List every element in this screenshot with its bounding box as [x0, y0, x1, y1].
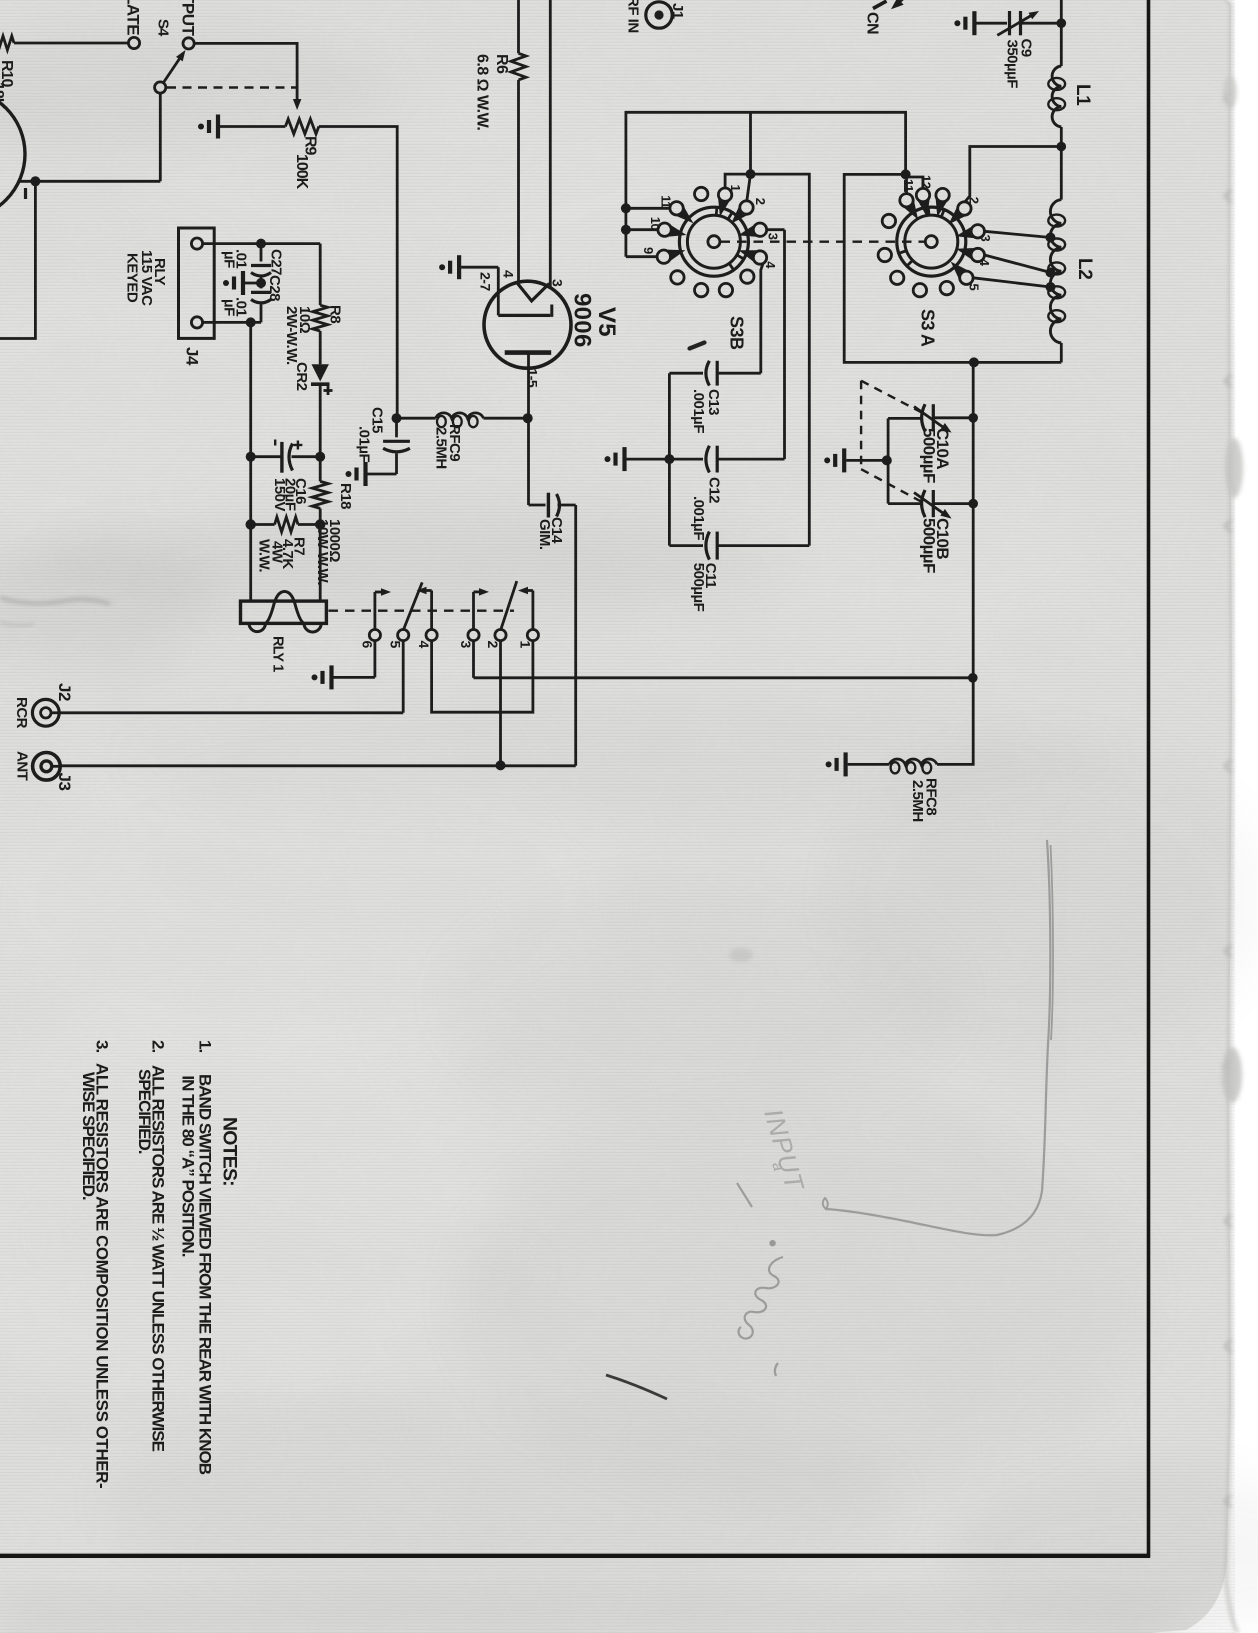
junction dot	[969, 357, 979, 367]
label S3A pin 2	[967, 197, 982, 204]
junction dot	[664, 454, 674, 464]
label contact 2	[485, 641, 501, 649]
wire C10 right bus	[972, 362, 975, 677]
wire C10 box	[887, 418, 890, 503]
label S3B pin 11	[658, 195, 673, 208]
wire bus to RFC8	[937, 678, 973, 765]
junction dot (ground stem)	[882, 455, 892, 465]
svg-text:500µµF: 500µµF	[690, 563, 707, 612]
resistor R9 (pot)	[285, 119, 318, 134]
label pin 4	[501, 270, 517, 278]
svg-text:KEYED: KEYED	[124, 253, 141, 303]
label S3A pin 11	[901, 179, 916, 192]
capacitor C28	[251, 283, 271, 322]
relay contact arm 3	[474, 588, 490, 629]
junction dot	[246, 317, 256, 327]
terminal J4 lower	[191, 317, 202, 328]
switch S4 moving contact	[155, 82, 166, 93]
plus sign C16	[293, 441, 302, 450]
label R8	[327, 305, 344, 323]
label S3A pin 3	[978, 235, 993, 242]
pencil dot	[769, 1240, 775, 1246]
label contact 5	[388, 641, 404, 649]
svg-text:11: 11	[658, 195, 673, 208]
resistor R10 (cut at edge)	[0, 36, 129, 50]
wire S3A pin 4 to L2 tap	[985, 255, 1051, 273]
label L2	[1074, 258, 1095, 280]
svg-text:150V: 150V	[271, 478, 288, 512]
label R6	[493, 54, 510, 74]
pencil word INPUT	[737, 1105, 810, 1207]
wire S3B pin 1	[725, 174, 750, 188]
label 150V	[271, 478, 288, 512]
svg-text:1-5: 1-5	[525, 369, 541, 388]
label 4W	[268, 541, 285, 564]
jack J2	[32, 699, 59, 726]
svg-text:WISE SPECIFIED.: WISE SPECIFIED.	[79, 1072, 98, 1200]
wire S3B pin 10	[626, 228, 658, 231]
switch S4 arm	[164, 50, 186, 83]
wire S3A pin 11	[905, 174, 908, 193]
svg-text:100K: 100K	[293, 154, 310, 190]
label 350uuF	[1004, 40, 1021, 89]
ground (pins 2-7)	[439, 255, 498, 315]
label C12	[705, 477, 722, 503]
junction dot	[968, 673, 978, 683]
svg-text:2: 2	[485, 641, 501, 649]
label J1	[669, 3, 686, 19]
wire RFC9 to cathode	[483, 417, 527, 420]
wire S3A pin 5 to L2 tap	[973, 278, 1051, 287]
svg-text:J3: J3	[55, 773, 74, 791]
label C14	[548, 517, 565, 544]
label KEYED	[124, 253, 141, 303]
wire contacts 4-1	[432, 641, 533, 713]
capacitor C13	[669, 361, 760, 386]
svg-text:3: 3	[766, 233, 781, 240]
note 2 marker	[148, 1040, 167, 1052]
svg-text:3: 3	[458, 641, 474, 649]
label pin 3	[550, 279, 566, 287]
resistor R7	[251, 517, 321, 532]
wire S3B pin 2	[747, 176, 750, 201]
rotor notch S3A	[898, 206, 945, 267]
label J2	[55, 683, 74, 701]
svg-text:V5: V5	[593, 307, 620, 337]
label S3B pin 9	[641, 247, 656, 254]
svg-text:J4: J4	[182, 347, 201, 366]
svg-text:3: 3	[978, 235, 993, 242]
label TPUT (OUTPUT cut)	[179, 0, 198, 37]
svg-text:C28: C28	[266, 275, 283, 301]
label 4.7K	[279, 539, 296, 569]
label R7	[290, 537, 307, 555]
dashed gang C10	[861, 381, 927, 505]
label R10	[0, 60, 15, 87]
svg-text:9006: 9006	[569, 293, 596, 348]
svg-text:CR2: CR2	[293, 362, 310, 391]
schematic border frame (right line)	[1147, 0, 1151, 1558]
label contact 6	[359, 641, 375, 649]
inductor L1	[1048, 66, 1065, 127]
notes title	[219, 1117, 241, 1186]
dashed link S4	[167, 86, 297, 88]
label V5	[593, 307, 620, 337]
capacitor C12	[669, 446, 784, 473]
svg-text:S3 A: S3 A	[918, 309, 938, 347]
wire pin1 node to C11 drop	[751, 174, 810, 545]
wire cathode	[529, 418, 546, 505]
note 3 line 2	[79, 1072, 98, 1200]
svg-text:IN THE 80 “A” POSITION.: IN THE 80 “A” POSITION.	[179, 1075, 198, 1256]
svg-text:RLY 1: RLY 1	[270, 636, 286, 672]
svg-text:R8: R8	[327, 305, 344, 323]
label uF C27	[221, 251, 238, 268]
svg-text:2-7: 2-7	[477, 272, 493, 291]
label 100K	[293, 154, 310, 190]
capacitor C14	[548, 493, 575, 518]
svg-text:9: 9	[641, 247, 656, 254]
label C13	[705, 389, 722, 415]
label C28	[266, 275, 283, 301]
label .01 C27	[233, 249, 250, 269]
relay moving arm 2	[501, 581, 517, 630]
label RLY1	[270, 636, 286, 672]
wire contact 2 down	[499, 641, 502, 766]
label C9	[1018, 39, 1035, 57]
label CN	[864, 12, 881, 34]
wire R8 to CR2	[319, 331, 322, 364]
minus sign C16	[274, 440, 276, 446]
junction dot	[256, 278, 266, 288]
junction dot (L2 tap 5)	[1046, 282, 1056, 292]
label J4	[182, 347, 201, 366]
label S3B pin 2	[753, 198, 768, 205]
svg-text:J1: J1	[669, 3, 686, 19]
label 1-5	[525, 369, 541, 388]
svg-text:3: 3	[550, 279, 566, 287]
label .001uF C13	[690, 389, 707, 433]
wire S3A pin 3 to L2 tap	[985, 231, 1051, 237]
relay contact terminals	[369, 630, 538, 641]
wire tank top	[1060, 0, 1063, 66]
label RF IN	[625, 0, 642, 33]
label C10B	[933, 518, 952, 559]
label 10ohm	[296, 306, 313, 334]
ground (C15)	[346, 462, 397, 486]
label RFC9	[446, 424, 463, 461]
svg-text:2W-W.W.: 2W-W.W.	[283, 306, 300, 365]
relay contact arm 1	[518, 587, 533, 630]
label RFC8	[923, 778, 940, 815]
wire L2 bottom	[1060, 343, 1063, 362]
wire C13-C11 left leg	[668, 373, 671, 545]
note 1 line 2	[179, 1075, 198, 1256]
svg-text:10: 10	[648, 217, 663, 231]
note 2 line 1	[148, 1065, 167, 1452]
label contact 3	[458, 641, 474, 649]
wire S4 to R9 wiper	[194, 43, 301, 110]
terminal J4 upper	[191, 238, 202, 249]
relay contact arm 4	[417, 587, 432, 630]
label RLY	[151, 258, 168, 286]
label contact 4	[416, 641, 432, 649]
junction dot	[621, 203, 631, 213]
label contact 1	[517, 641, 533, 649]
label C16	[292, 478, 309, 504]
capacitor C27	[251, 244, 271, 283]
wire J4 lower	[203, 321, 261, 324]
svg-text:CN: CN	[864, 12, 881, 34]
svg-text:NOTES:: NOTES:	[219, 1117, 241, 1186]
label 500uuF C11	[690, 563, 707, 612]
capacitor C9 (variable)	[997, 11, 1061, 35]
wire junction down-left corner	[0, 181, 35, 338]
label 500uuF C10A	[920, 428, 939, 483]
label S3A pin 12	[919, 175, 934, 189]
label S3A pin 5	[966, 284, 981, 291]
junction dot	[1057, 142, 1067, 152]
wire L1-L2	[1060, 127, 1063, 200]
label 2.5MH RFC8	[909, 780, 926, 822]
wire S3B pin 3	[767, 230, 785, 459]
svg-text:R6: R6	[493, 54, 510, 74]
note 1 marker	[195, 1040, 214, 1052]
svg-text:C27: C27	[267, 249, 284, 275]
wire contact 5 to J2	[60, 641, 403, 713]
label 2.5MH RFC9	[433, 427, 450, 469]
relay contact arm 6	[375, 588, 391, 629]
rotary switch S3A	[878, 188, 984, 296]
svg-text:4: 4	[416, 641, 432, 649]
rotary switch S3B	[657, 187, 767, 296]
svg-text:RF IN: RF IN	[625, 0, 642, 33]
pencil scribble	[739, 1257, 783, 1339]
svg-text:350µµF: 350µµF	[1004, 40, 1021, 89]
label W.W.	[255, 539, 272, 572]
inductor RFC9	[436, 413, 484, 427]
wire contact 3 long	[474, 641, 973, 678]
label R18	[337, 483, 354, 509]
svg-text:5: 5	[388, 641, 404, 649]
wire S3A pin 12	[908, 177, 924, 188]
note 3 marker	[93, 1040, 112, 1052]
wire S3A pin 2	[965, 147, 1062, 203]
svg-text:500µµF: 500µµF	[920, 428, 939, 483]
svg-text:2: 2	[967, 197, 982, 204]
svg-text:R18: R18	[337, 483, 354, 509]
label S3B pin 10	[648, 217, 663, 231]
svg-text:.001µF: .001µF	[690, 496, 707, 540]
label 1000ohm	[326, 519, 343, 562]
svg-text:12: 12	[919, 175, 934, 189]
junction dot	[256, 239, 266, 249]
label S3A	[918, 309, 938, 347]
wire tube to S4 junction	[18, 180, 160, 183]
junction dot	[1057, 18, 1067, 28]
terminal PLATE	[128, 37, 139, 48]
ground (contact 6)	[312, 641, 375, 690]
label 2-7	[477, 272, 493, 291]
wire S3B pin 9	[626, 255, 657, 258]
label CR2	[293, 362, 310, 391]
wire S4 arm riser	[159, 93, 162, 182]
junction dot	[523, 413, 533, 423]
label 6.8ohm W.W.	[474, 54, 491, 130]
svg-text:J2: J2	[55, 683, 74, 701]
dashed link relay to contacts	[329, 610, 515, 612]
junction dot	[315, 519, 325, 529]
label LATE (PLATE cut)	[124, 0, 143, 35]
label RCR	[13, 697, 30, 729]
pencil line (long)	[823, 840, 1053, 1235]
resistor R18	[312, 457, 328, 525]
label 20uF	[282, 478, 299, 511]
capacitor C16 (electrolytic)	[251, 442, 321, 473]
ink slash mark	[606, 1375, 667, 1399]
svg-text:6: 6	[359, 641, 375, 649]
svg-text:2.: 2.	[148, 1040, 167, 1052]
jack J3	[33, 753, 61, 781]
svg-text:2.5MH: 2.5MH	[909, 780, 926, 822]
switch S4 fixed terminal	[183, 38, 194, 49]
label GIM.	[536, 519, 553, 550]
label S4	[155, 19, 172, 37]
svg-text:.01µF: .01µF	[355, 426, 372, 462]
jack J4 box	[179, 228, 215, 338]
schematic border frame (bottom line)	[0, 1554, 1150, 1558]
label 9006	[569, 293, 596, 348]
svg-text:1: 1	[517, 641, 533, 649]
junction dot (L2 tap 3)	[1046, 233, 1056, 243]
ground (C9)	[954, 11, 1007, 35]
svg-text:W.W.: W.W.	[255, 539, 272, 572]
inductor RFC8	[889, 759, 937, 773]
wire left chain down	[249, 322, 252, 601]
svg-text:µF: µF	[221, 299, 238, 316]
relay RLY1 coil box	[241, 592, 327, 633]
stray mark near S3B	[690, 343, 705, 349]
wire pin4 w/ R6	[517, 0, 520, 53]
label 18K (cut)	[0, 82, 6, 110]
junction dot	[621, 225, 631, 235]
svg-text:3.: 3.	[93, 1040, 112, 1052]
label S3B pin 1	[728, 185, 743, 192]
label .01 C28	[233, 297, 250, 317]
svg-text:LATE: LATE	[124, 0, 143, 35]
label 500uuF C10B	[920, 518, 939, 573]
label ANT	[13, 751, 30, 781]
wire R9 to C15 node	[319, 127, 397, 419]
junction dot	[30, 176, 40, 186]
label S3B pin 4	[763, 261, 778, 269]
label C10A	[933, 428, 952, 469]
wire drop to pin1 node	[749, 112, 752, 174]
tube (partial, cut at left edge)	[0, 89, 25, 219]
label .001uF C12	[690, 496, 707, 540]
svg-text:11: 11	[901, 179, 916, 192]
junction dot	[901, 169, 911, 179]
note 2 line 2	[135, 1069, 154, 1154]
junction dot	[246, 519, 256, 529]
label uF C28	[221, 299, 238, 316]
svg-text:6.8 Ω W.W.: 6.8 Ω W.W.	[474, 54, 491, 130]
svg-text:SPECIFIED.: SPECIFIED.	[135, 1069, 154, 1154]
capacitor C11	[669, 532, 809, 560]
svg-text:RCR: RCR	[13, 697, 30, 729]
resistor R6	[511, 53, 526, 282]
svg-text:2: 2	[753, 198, 768, 205]
junction dot	[392, 413, 402, 423]
label C27	[267, 249, 284, 275]
ground (R9)	[198, 115, 285, 139]
ground (C10)	[824, 448, 887, 472]
inductor L2	[1048, 200, 1065, 343]
ground (C27/C28)	[223, 271, 261, 295]
pin tick label	[24, 188, 27, 199]
label C11	[702, 563, 719, 588]
ground (RFC8)	[826, 752, 890, 776]
resistor R8	[313, 305, 328, 331]
wire S3B top frame	[626, 112, 906, 256]
label L1	[1072, 84, 1093, 106]
svg-text:.001µF: .001µF	[690, 389, 707, 433]
label S3B pin 3	[766, 233, 781, 240]
wire S3B pin 11	[626, 207, 670, 210]
wire J3 bus	[60, 505, 575, 766]
svg-text:GIM.: GIM.	[536, 519, 553, 550]
capacitor C10A (variable)	[888, 404, 973, 432]
wire node to RFC9	[397, 417, 436, 420]
capacitor C10B (variable)	[888, 490, 973, 519]
svg-text:TPUT: TPUT	[179, 0, 198, 37]
svg-text:L1: L1	[1072, 84, 1093, 106]
junction dot	[746, 169, 756, 179]
junction dot	[968, 413, 978, 423]
svg-text:S3B: S3B	[726, 316, 746, 350]
wire S3A box	[844, 174, 1061, 362]
jack J1 RF IN	[646, 2, 672, 28]
svg-text:500µµF: 500µµF	[920, 518, 939, 573]
plus sign CR2	[324, 386, 333, 395]
tube V5 9006	[484, 281, 571, 418]
svg-text:1: 1	[728, 185, 743, 192]
note 3 line 1	[93, 1063, 112, 1488]
dashed gang S3B-S3A	[721, 240, 925, 242]
svg-text:18K: 18K	[0, 82, 6, 110]
label 115VAC	[138, 250, 155, 306]
capacitor C15	[383, 418, 410, 474]
wire J4 upper to R8 chain	[203, 244, 321, 306]
label J3	[55, 773, 74, 791]
svg-text:R9: R9	[302, 136, 319, 156]
svg-text:µF: µF	[221, 251, 238, 268]
label .01uF C15	[355, 426, 372, 462]
svg-text:1.: 1.	[195, 1040, 214, 1052]
capacitor CN (cut at top)	[873, 0, 904, 9]
svg-text:S4: S4	[155, 19, 172, 37]
junction dot	[246, 452, 256, 462]
label S3A pin 4	[977, 259, 992, 267]
pencil smudge	[729, 948, 753, 962]
label R9	[302, 136, 319, 156]
junction dot	[968, 499, 978, 509]
diode CR2	[311, 364, 330, 456]
svg-text:5: 5	[966, 284, 981, 291]
wire pin3	[549, 0, 552, 288]
svg-text:2.5MH: 2.5MH	[433, 427, 450, 469]
label 2W-W.W.	[283, 306, 300, 365]
